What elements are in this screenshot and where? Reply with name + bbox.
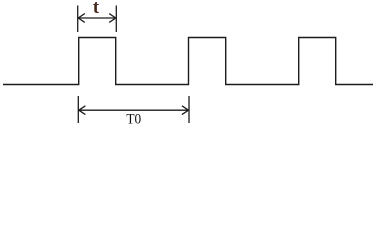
- svg-text:T0: T0: [126, 112, 141, 128]
- svg-text:t: t: [93, 0, 100, 18]
